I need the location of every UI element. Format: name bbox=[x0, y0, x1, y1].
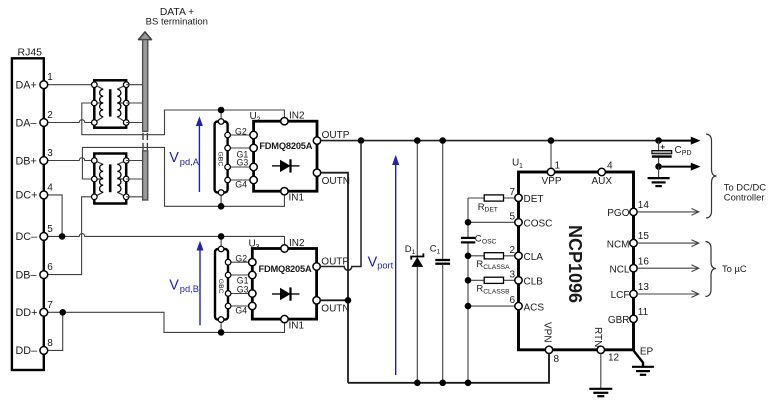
svg-text:3: 3 bbox=[47, 148, 53, 159]
detection bus VPN bbox=[465, 198, 472, 386]
resistor RCLASSA bbox=[465, 253, 519, 272]
wire OUTN chain down to bottom rail bbox=[320, 173, 348, 383]
resistor RDET bbox=[468, 195, 519, 214]
pin 5 bbox=[40, 224, 53, 240]
node DD junction bbox=[59, 309, 66, 316]
svg-text:NCP1096: NCP1096 bbox=[565, 225, 585, 303]
arrow LCF out bbox=[637, 291, 699, 298]
resistor RCLASSB bbox=[465, 277, 519, 296]
svg-text:13: 13 bbox=[638, 282, 650, 293]
svg-text:ACS: ACS bbox=[524, 302, 545, 313]
svg-text:G2: G2 bbox=[235, 126, 247, 136]
wire VPP riser bbox=[548, 137, 555, 172]
wire COSC pin bbox=[465, 219, 519, 226]
capacitor C1 bbox=[430, 137, 450, 386]
pin 7 bbox=[40, 300, 53, 316]
wire pin8 DD- up to DD node bbox=[44, 312, 63, 350]
svg-text:DET: DET bbox=[485, 207, 498, 214]
svg-text:DA–: DA– bbox=[16, 117, 37, 129]
svg-text:1: 1 bbox=[555, 161, 561, 172]
svg-text:DC+: DC+ bbox=[16, 190, 38, 202]
svg-text:7: 7 bbox=[47, 300, 53, 311]
wire bottom rail Vport- bbox=[348, 354, 549, 383]
svg-text:GBC: GBC bbox=[217, 152, 224, 167]
svg-text:2: 2 bbox=[509, 245, 515, 256]
node IN1 net tap U3 bbox=[218, 329, 225, 336]
svg-text:14: 14 bbox=[638, 200, 650, 211]
svg-text:3: 3 bbox=[509, 269, 515, 280]
svg-text:C: C bbox=[475, 234, 482, 245]
svg-text:IN1: IN1 bbox=[289, 320, 305, 331]
wire Vpd,A center-tap loop T1 to U2 IN2 bbox=[82, 103, 285, 135]
svg-text:CLB: CLB bbox=[524, 277, 544, 288]
svg-text:LCF: LCF bbox=[611, 290, 630, 301]
node IN1 net tap U2 bbox=[218, 203, 225, 210]
ground RTN bbox=[589, 389, 612, 396]
wire CPD to ground bbox=[658, 167, 660, 178]
svg-text:G4: G4 bbox=[235, 305, 247, 315]
pin 2 bbox=[40, 110, 53, 126]
svg-text:COSC: COSC bbox=[524, 219, 553, 230]
svg-text:12: 12 bbox=[608, 353, 620, 364]
wire top rail Vport+ bbox=[321, 140, 659, 142]
svg-text:PGO: PGO bbox=[607, 208, 629, 219]
arrow PD return out bbox=[662, 163, 701, 171]
brace To uC bbox=[706, 242, 747, 297]
wire T1 secondary data lines to arrow shaft bbox=[126, 85, 142, 123]
wire ACS pin bbox=[465, 303, 519, 310]
svg-text:CLASSB: CLASSB bbox=[483, 289, 510, 296]
bridge U3 FDMQ8205A bbox=[235, 238, 349, 332]
svg-text:OSC: OSC bbox=[482, 238, 497, 245]
svg-text:VPN: VPN bbox=[542, 322, 553, 343]
svg-text:VPP: VPP bbox=[542, 176, 562, 187]
svg-text:CLASSA: CLASSA bbox=[483, 264, 510, 271]
svg-text:G3: G3 bbox=[237, 284, 249, 294]
svg-text:6: 6 bbox=[509, 295, 515, 306]
svg-text:NCM: NCM bbox=[607, 239, 630, 250]
pin 4 bbox=[40, 182, 53, 198]
wire pin2 DA- to T1 (hop over Vpd,A leg) bbox=[44, 120, 94, 123]
svg-text:1: 1 bbox=[437, 249, 441, 256]
svg-text:Controller: Controller bbox=[724, 191, 765, 202]
pin 8 bbox=[40, 338, 53, 354]
arrow Vport+ out bbox=[659, 137, 701, 145]
svg-text:DET: DET bbox=[524, 194, 544, 205]
label Vport with arrow bbox=[368, 155, 400, 375]
svg-text:To µC: To µC bbox=[722, 263, 747, 274]
capacitor COSC bbox=[461, 234, 497, 246]
svg-text:4: 4 bbox=[607, 161, 613, 172]
svg-text:7: 7 bbox=[509, 187, 515, 198]
svg-text:DB+: DB+ bbox=[16, 155, 37, 167]
svg-text:DD+: DD+ bbox=[16, 307, 38, 319]
arrow NCL out bbox=[637, 265, 699, 272]
svg-text:1: 1 bbox=[519, 163, 523, 170]
gate network GBC (U3) bbox=[215, 246, 231, 322]
svg-text:G4: G4 bbox=[235, 180, 247, 190]
label DATA + BS termination bbox=[146, 7, 208, 28]
node IN2 net tap U2 bbox=[218, 107, 225, 114]
svg-text:IN2: IN2 bbox=[289, 238, 305, 249]
svg-text:DA+: DA+ bbox=[16, 80, 37, 92]
ground EP bbox=[632, 367, 654, 375]
wire U3 OUTP riser to top rail (hop under OUTN downline) bbox=[320, 144, 361, 270]
svg-text:2: 2 bbox=[47, 110, 53, 121]
node top rail U3-OUTP bbox=[358, 137, 365, 144]
node OUTN join bbox=[345, 297, 352, 304]
svg-text:6: 6 bbox=[47, 262, 53, 273]
IC U1 NCP1096 bbox=[509, 158, 649, 366]
wire RTN to ground bbox=[600, 354, 602, 389]
node DC junction bbox=[59, 233, 66, 240]
svg-text:BS termination: BS termination bbox=[146, 17, 208, 28]
svg-text:port: port bbox=[377, 261, 393, 271]
node CPD bottom bbox=[655, 163, 662, 170]
wire GBC1 taps bbox=[221, 110, 254, 206]
transformer T1 bbox=[92, 80, 130, 127]
wire Vpd,B center-tap loop T2 to U2 IN1 bbox=[82, 147, 284, 206]
svg-text:RJ45: RJ45 bbox=[18, 47, 43, 59]
bridge U2 FDMQ8205A bbox=[235, 111, 350, 204]
svg-text:PD: PD bbox=[682, 150, 692, 157]
gate network GBC (U2) bbox=[215, 119, 231, 196]
arrow PGO out bbox=[637, 209, 699, 216]
svg-text:1: 1 bbox=[47, 72, 53, 83]
svg-text:3: 3 bbox=[256, 244, 260, 251]
svg-text:G3: G3 bbox=[237, 157, 249, 167]
wire GBC2 taps bbox=[221, 236, 252, 332]
svg-text:pd,A: pd,A bbox=[180, 157, 200, 167]
svg-text:OUTP: OUTP bbox=[322, 130, 350, 141]
svg-text:C: C bbox=[675, 145, 682, 156]
wire pin6 DB- to T2 bottom bbox=[44, 197, 94, 275]
wire pin3 DB+ to T2 (hop over Vpd,B leg) bbox=[44, 158, 94, 161]
svg-text:8: 8 bbox=[554, 354, 560, 365]
svg-text:1: 1 bbox=[412, 249, 416, 256]
transformer T2 bbox=[92, 154, 130, 204]
svg-text:5: 5 bbox=[47, 224, 53, 235]
svg-text:11: 11 bbox=[638, 307, 649, 318]
svg-text:DD–: DD– bbox=[16, 345, 38, 357]
svg-text:V: V bbox=[368, 254, 378, 270]
svg-text:2: 2 bbox=[257, 117, 261, 124]
arrow NCM out bbox=[637, 240, 699, 247]
pin 3 bbox=[40, 148, 53, 164]
svg-text:G2: G2 bbox=[235, 254, 247, 264]
svg-text:FDMQ8205A: FDMQ8205A bbox=[259, 264, 312, 274]
svg-text:DC–: DC– bbox=[16, 231, 38, 243]
svg-text:FDMQ8205A: FDMQ8205A bbox=[259, 141, 312, 151]
node IN2 net tap U3 bbox=[218, 233, 225, 240]
node CPD top bbox=[655, 137, 662, 144]
label Vpd,B with arrow bbox=[169, 241, 203, 326]
svg-text:AUX: AUX bbox=[592, 176, 613, 187]
svg-text:4: 4 bbox=[47, 182, 53, 193]
svg-text:CLA: CLA bbox=[524, 252, 544, 263]
label Vpd,A with arrow bbox=[169, 116, 203, 192]
wire T2 secondary data lines to arrow shaft bbox=[126, 161, 142, 197]
svg-text:pd,B: pd,B bbox=[180, 284, 199, 294]
svg-text:V: V bbox=[169, 278, 179, 294]
diode D1 TVS bbox=[405, 137, 424, 386]
svg-text:IN1: IN1 bbox=[289, 193, 305, 204]
svg-text:15: 15 bbox=[638, 231, 650, 242]
svg-text:16: 16 bbox=[638, 256, 650, 267]
svg-text:GBC: GBC bbox=[217, 279, 224, 294]
data bus arrow to PHY bbox=[139, 32, 152, 200]
svg-text:8: 8 bbox=[47, 338, 53, 349]
svg-text:OUTN: OUTN bbox=[321, 304, 349, 315]
svg-text:RTN: RTN bbox=[592, 327, 603, 347]
svg-text:V: V bbox=[169, 150, 179, 166]
svg-text:OUTN: OUTN bbox=[322, 176, 350, 187]
capacitor CPD polarized bbox=[652, 141, 692, 167]
brace To DC/DC Controller bbox=[706, 134, 766, 218]
ground CPD bbox=[648, 178, 670, 186]
svg-text:DB–: DB– bbox=[16, 269, 37, 281]
svg-text:5: 5 bbox=[509, 211, 515, 222]
pad EP stub bbox=[634, 347, 654, 367]
pin 1 bbox=[40, 72, 53, 88]
svg-text:EP: EP bbox=[640, 347, 654, 358]
svg-text:GBR: GBR bbox=[608, 315, 630, 326]
wire DC pair to U3 IN2 (hop over pin6 riser) bbox=[44, 234, 285, 249]
svg-text:IN2: IN2 bbox=[289, 111, 305, 122]
wire pin4 DC+ down to DC node bbox=[44, 195, 62, 237]
wire pin1 DA+ to T1 bbox=[44, 84, 94, 86]
pin 6 bbox=[40, 262, 53, 278]
svg-text:NCL: NCL bbox=[609, 264, 629, 275]
connector RJ45 bbox=[12, 47, 44, 371]
wire DD pair to U3 IN1 bbox=[44, 312, 285, 332]
